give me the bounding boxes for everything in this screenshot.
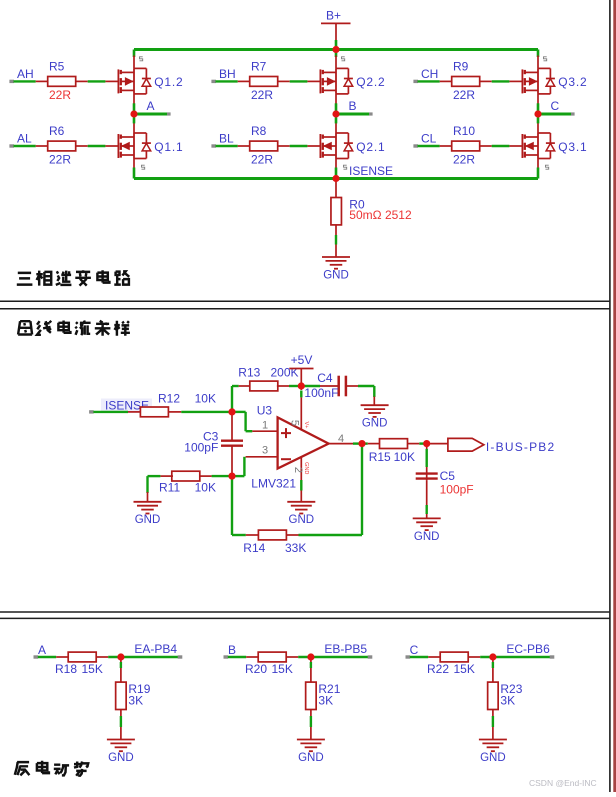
svg-text:GND: GND [480, 752, 506, 764]
svg-text:CL: CL [421, 132, 437, 146]
svg-text:BL: BL [219, 132, 234, 146]
svg-text:10K: 10K [195, 391, 216, 405]
svg-text:A: A [147, 99, 155, 113]
svg-text:GND: GND [414, 531, 440, 543]
svg-text:R10: R10 [453, 124, 475, 138]
svg-text:3K: 3K [318, 694, 333, 708]
svg-text:CH: CH [421, 67, 438, 81]
svg-text:5: 5 [289, 420, 301, 426]
svg-text:U3: U3 [257, 404, 273, 418]
svg-text:10K: 10K [195, 481, 216, 495]
svg-text:GND: GND [108, 752, 134, 764]
svg-text:Q1.2: Q1.2 [154, 75, 183, 89]
svg-text:B: B [349, 99, 357, 113]
svg-text:GND: GND [298, 752, 324, 764]
svg-text:ISENSE: ISENSE [349, 164, 393, 178]
svg-text:15K: 15K [82, 662, 103, 676]
svg-text:R5: R5 [49, 59, 65, 73]
svg-text:C: C [410, 643, 419, 657]
svg-text:22R: 22R [49, 152, 71, 166]
svg-text:R13: R13 [238, 365, 260, 379]
svg-text:200K: 200K [271, 365, 299, 379]
svg-text:50mΩ 2512: 50mΩ 2512 [349, 208, 412, 222]
svg-text:R8: R8 [251, 124, 267, 138]
svg-text:R12: R12 [158, 391, 180, 405]
svg-text:22R: 22R [251, 88, 273, 102]
svg-text:Q2.2: Q2.2 [356, 75, 385, 89]
svg-text:R6: R6 [49, 124, 65, 138]
svg-text:15K: 15K [454, 662, 475, 676]
svg-text:15K: 15K [272, 662, 293, 676]
svg-text:AL: AL [17, 132, 32, 146]
svg-text:100pF: 100pF [440, 483, 474, 497]
svg-text:BH: BH [219, 67, 236, 81]
svg-text:Q3.2: Q3.2 [558, 75, 587, 89]
svg-text:22R: 22R [453, 88, 475, 102]
svg-text:C5: C5 [440, 469, 456, 483]
svg-text:3K: 3K [128, 694, 143, 708]
svg-text:Q1.1: Q1.1 [154, 140, 183, 154]
svg-text:100pF: 100pF [184, 441, 218, 455]
svg-text:I-BUS-PB2: I-BUS-PB2 [486, 440, 555, 454]
svg-text:A: A [38, 643, 46, 657]
svg-text:V+: V+ [303, 421, 309, 428]
svg-text:Q3.1: Q3.1 [558, 140, 587, 154]
svg-text:R11: R11 [159, 481, 180, 495]
svg-text:22R: 22R [453, 152, 475, 166]
svg-text:CSDN @End-INC: CSDN @End-INC [529, 778, 597, 788]
svg-text:EC-PB6: EC-PB6 [506, 642, 550, 656]
svg-text:C: C [551, 99, 560, 113]
svg-text:100nF: 100nF [304, 386, 338, 400]
svg-text:Q2.1: Q2.1 [356, 140, 385, 154]
svg-text:C4: C4 [317, 371, 333, 385]
svg-text:GND: GND [362, 418, 388, 430]
svg-text:GND: GND [289, 514, 315, 526]
svg-text:22R: 22R [49, 88, 71, 102]
svg-text:4: 4 [338, 433, 344, 445]
svg-text:R14: R14 [243, 541, 265, 555]
svg-text:B+: B+ [326, 9, 341, 23]
svg-text:22R: 22R [251, 152, 273, 166]
svg-text:3K: 3K [500, 694, 515, 708]
svg-text:33K: 33K [285, 541, 306, 555]
svg-text:3: 3 [262, 444, 268, 456]
svg-text:LMV321: LMV321 [251, 476, 296, 490]
svg-text:GND: GND [303, 462, 309, 474]
svg-text:GND: GND [323, 269, 349, 281]
svg-text:B: B [228, 643, 236, 657]
svg-text:10K: 10K [394, 450, 415, 464]
svg-text:R22: R22 [427, 662, 449, 676]
svg-text:EB-PB5: EB-PB5 [324, 642, 367, 656]
svg-text:R18: R18 [55, 662, 77, 676]
svg-text:GND: GND [135, 514, 161, 526]
svg-text:R9: R9 [453, 59, 469, 73]
svg-text:R20: R20 [245, 662, 267, 676]
svg-text:R7: R7 [251, 59, 267, 73]
svg-text:AH: AH [17, 67, 34, 81]
svg-text:R15: R15 [369, 450, 391, 464]
svg-text:1: 1 [262, 419, 268, 431]
svg-text:+5V: +5V [291, 353, 313, 367]
svg-text:2: 2 [292, 467, 304, 473]
svg-text:EA-PB4: EA-PB4 [134, 642, 177, 656]
